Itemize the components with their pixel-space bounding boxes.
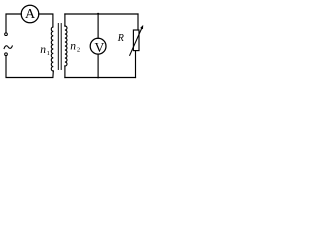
svg-text:1: 1 <box>47 50 50 57</box>
svg-text:R: R <box>117 33 124 44</box>
svg-text:V: V <box>94 40 104 55</box>
svg-text:2: 2 <box>77 46 80 53</box>
svg-text:n: n <box>70 40 76 52</box>
svg-text:A: A <box>25 7 36 22</box>
svg-text:n: n <box>40 44 46 56</box>
